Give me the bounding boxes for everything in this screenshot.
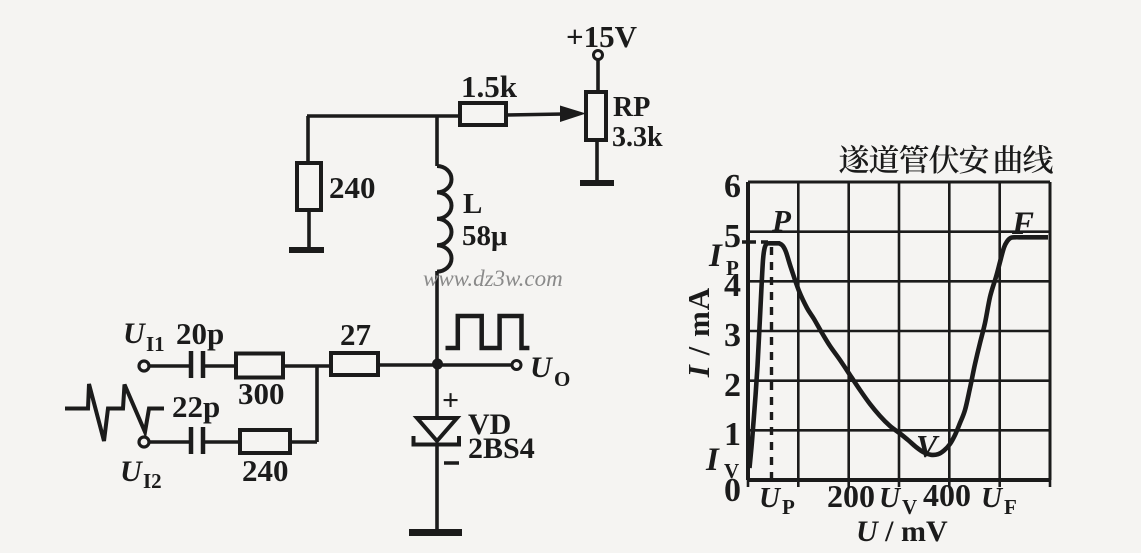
y-axis label 3 <box>724 317 741 354</box>
terminal U_I1 <box>139 361 149 371</box>
wire +15V to RP <box>596 60 600 92</box>
ground bottom <box>409 529 462 536</box>
dashed line at U_P <box>770 247 773 478</box>
svg-text:I2: I2 <box>143 469 162 493</box>
svg-text:F: F <box>1004 495 1017 519</box>
tunnel diode I-V curve <box>750 237 1049 468</box>
watermark <box>423 266 563 291</box>
svg-text:U: U <box>123 317 146 350</box>
wire diode to ground <box>435 444 439 530</box>
svg-text:6: 6 <box>724 168 741 205</box>
y-axis label 0 <box>724 472 741 509</box>
resistor 1.5k <box>460 103 506 125</box>
svg-text:3: 3 <box>724 317 741 354</box>
svg-text:I: I <box>708 238 723 274</box>
x label U_F <box>981 482 1017 519</box>
label 240 upper <box>329 170 376 205</box>
y-axis label 2 <box>724 367 741 404</box>
svg-text:RP: RP <box>613 92 650 123</box>
resistor 240 upper <box>297 163 321 210</box>
svg-text:I: I <box>705 442 720 478</box>
resistor 300 <box>236 354 283 378</box>
resistor 240 lower <box>240 430 290 453</box>
curve point label F <box>1011 206 1034 242</box>
wire R240 to junction <box>290 440 317 444</box>
label 27 <box>340 317 371 352</box>
graph grid and axes <box>748 182 1050 480</box>
curve point label V <box>916 428 940 464</box>
svg-text:58μ: 58μ <box>462 220 508 252</box>
resistor 27 <box>331 353 378 375</box>
svg-text:1: 1 <box>724 416 741 453</box>
spike waveform at U_I2 <box>65 384 164 441</box>
inductor L coil <box>437 166 452 272</box>
label 1.5k <box>461 69 518 104</box>
potentiometer RP body <box>586 92 606 140</box>
x label 200 <box>827 478 875 514</box>
wire tee to inductor <box>435 116 439 166</box>
svg-text:V: V <box>724 459 739 483</box>
x axis title U/mV <box>856 515 948 548</box>
power label +15V <box>566 19 638 54</box>
wire node to diode <box>435 364 439 418</box>
wire R27 to node <box>378 363 434 367</box>
junction drop wire <box>315 366 319 442</box>
svg-text:U: U <box>530 351 553 384</box>
svg-text:3.3k: 3.3k <box>612 122 663 153</box>
svg-text:U: U <box>759 482 782 514</box>
capacitor 20p <box>191 351 203 378</box>
svg-text:20p: 20p <box>176 316 224 351</box>
ground under RP <box>580 180 614 186</box>
wire C20p to R300 <box>205 364 236 368</box>
x label 400 <box>923 477 971 513</box>
y-axis label 4 <box>724 267 741 304</box>
graph title (tunnel diode V-A curve) <box>839 145 1053 174</box>
svg-text:L: L <box>463 188 482 220</box>
wire R240 to ground <box>307 210 311 248</box>
y-axis label 5 <box>724 218 741 255</box>
I_P level tick <box>742 240 768 243</box>
svg-text:2: 2 <box>724 367 741 404</box>
label I_P <box>708 238 739 280</box>
svg-text:200: 200 <box>827 478 875 514</box>
wire R300 to R27 <box>283 364 331 368</box>
svg-text:V: V <box>916 428 940 464</box>
wiper arrow of RP <box>506 106 586 123</box>
svg-text:P: P <box>726 256 739 280</box>
svg-text:+: + <box>442 384 459 417</box>
svg-text:U: U <box>981 482 1004 514</box>
label 3.3k <box>612 122 663 153</box>
svg-text:I1: I1 <box>146 332 165 356</box>
svg-text:2BS4: 2BS4 <box>468 432 535 465</box>
svg-text:300: 300 <box>238 376 285 411</box>
svg-text:240: 240 <box>242 453 289 488</box>
label RP <box>613 92 650 123</box>
x label U_P <box>759 482 795 519</box>
y axis title I/mA <box>681 287 716 378</box>
svg-text:+15V: +15V <box>566 19 638 54</box>
wire node to output <box>441 363 512 367</box>
label U_I2 <box>120 455 162 493</box>
label VD <box>468 408 511 441</box>
wire U_I1 to C20p <box>149 364 190 368</box>
label 22p <box>172 389 220 424</box>
square wave symbol <box>446 316 530 348</box>
svg-text:P: P <box>782 495 795 519</box>
y-axis label 1 <box>724 416 741 453</box>
svg-text:www.dz3w.com: www.dz3w.com <box>423 266 563 291</box>
terminal U_O <box>512 361 521 370</box>
ground under 240 <box>289 247 324 253</box>
x label U_V <box>879 482 917 519</box>
svg-text:U / mV: U / mV <box>856 515 948 548</box>
label 58u <box>462 220 508 252</box>
wire RP to ground <box>595 140 599 181</box>
node dot <box>432 359 443 370</box>
svg-text:U: U <box>879 482 902 514</box>
wire left drop to R240 <box>306 116 310 163</box>
minus sign <box>444 461 459 465</box>
terminal U_I2 <box>139 437 149 447</box>
svg-text:240: 240 <box>329 170 376 205</box>
svg-text:5: 5 <box>724 218 741 255</box>
wire top rail <box>307 114 460 118</box>
label 20p <box>176 316 224 351</box>
svg-text:400: 400 <box>923 477 971 513</box>
label 300 <box>238 376 285 411</box>
svg-text:U: U <box>120 455 143 488</box>
curve point label P <box>771 203 792 238</box>
label 240 lower <box>242 453 289 488</box>
x-axis tick marks <box>748 480 1050 487</box>
wire U_I2 to C22p <box>149 440 190 444</box>
svg-text:O: O <box>554 367 570 391</box>
tunnel diode VD <box>414 418 460 445</box>
svg-text:1.5k: 1.5k <box>461 69 518 104</box>
label U_O <box>530 351 570 391</box>
svg-text:P: P <box>771 203 792 238</box>
svg-text:27: 27 <box>340 317 371 352</box>
label U_I1 <box>123 317 165 356</box>
label I_V <box>705 442 739 483</box>
svg-text:I / mA: I / mA <box>681 287 716 378</box>
label L <box>463 188 482 220</box>
terminal +15V <box>594 51 603 60</box>
label 2BS4 <box>468 432 535 465</box>
wire C22p to R240 <box>205 440 240 444</box>
wire inductor to node <box>435 271 439 364</box>
svg-text:22p: 22p <box>172 389 220 424</box>
y-axis label 6 <box>724 168 741 205</box>
plus sign <box>442 384 459 417</box>
capacitor 22p <box>191 427 203 454</box>
